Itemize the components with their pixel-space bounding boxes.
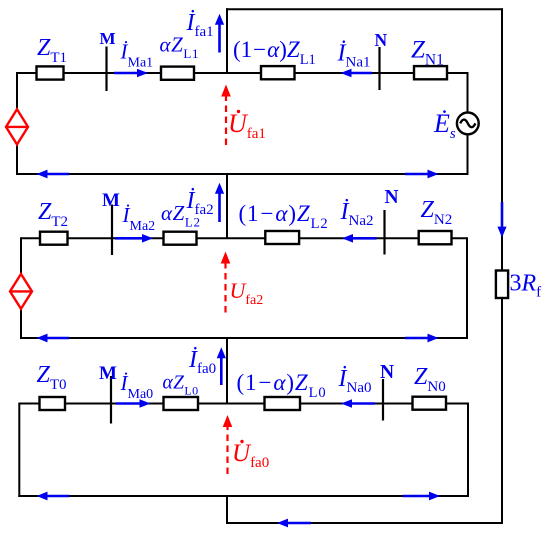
wire loop1 left lower <box>16 144 18 175</box>
wire loop1 top segment b <box>63 72 162 74</box>
current arrow right rail (down) <box>497 202 506 238</box>
wire loop2 left lower <box>20 309 22 340</box>
resistor ZN0 box <box>413 397 447 410</box>
wire loop2 top segment d <box>298 237 420 239</box>
node M bus tick (loop3) <box>110 376 112 424</box>
node N bus tick (loop3) <box>382 379 384 421</box>
svg-text:M: M <box>100 29 116 48</box>
wire top rail <box>226 8 503 10</box>
svg-text:N: N <box>380 362 394 383</box>
resistor alphaZL1 box <box>161 67 194 80</box>
resistor ZT0 box <box>40 397 66 410</box>
current arrow IMa0 <box>116 399 151 408</box>
wire loop2 right <box>466 237 468 339</box>
wire loop1 right upper <box>467 72 469 113</box>
wire loop2 top segment b <box>67 237 164 239</box>
resistor (1-alpha)ZL2 box <box>265 231 299 244</box>
wire loop1 top segment d <box>293 72 415 74</box>
wire loop2 top segment c <box>196 237 266 239</box>
node M bus tick (loop1) <box>105 47 107 92</box>
node N bus tick (loop1) <box>378 47 380 90</box>
resistor (1-alpha)ZL0 box <box>265 397 301 410</box>
wire right rail upper <box>501 8 503 271</box>
current arrow loop1 bottom-right <box>405 170 439 179</box>
wire loop1 top segment a <box>17 72 37 74</box>
wire loop1 right lower <box>467 134 469 175</box>
current arrow loop1 bottom-left <box>37 170 70 179</box>
resistor alphaZL2 box <box>164 232 197 245</box>
node N bus tick (loop2) <box>383 210 385 255</box>
source J2 diamond (negative-sequence) <box>10 274 32 309</box>
wire loop3 bottom <box>18 495 469 497</box>
resistor ZN1 box <box>414 66 447 79</box>
wire loop3 top segment b <box>64 403 164 405</box>
source Es circle <box>457 113 479 135</box>
resistor ZT2 box <box>40 232 68 245</box>
wire bottom rail <box>226 522 503 524</box>
current arrow INa1 <box>341 69 373 78</box>
resistor ZT1 box <box>37 66 64 79</box>
wire loop3 top segment a <box>19 403 40 405</box>
current arrow loop2 bottom-left <box>37 334 70 343</box>
voltage arrow Ufa0 (red dashed, up) <box>223 415 233 474</box>
current arrow loop3 bottom-right <box>403 492 440 501</box>
wire loop3 top segment c <box>198 403 266 405</box>
wire loop2-loop3 connector <box>226 338 228 405</box>
resistor 3Rf box <box>496 271 508 299</box>
svg-text:N: N <box>375 30 388 50</box>
resistor (1-alpha)ZL1 box <box>261 66 295 79</box>
resistor alphaZL0 box <box>164 397 199 410</box>
wire loop1 top segment c <box>193 72 262 74</box>
current arrow Ifa0 (up) <box>217 347 226 385</box>
current arrow Ifa1 (up) <box>215 14 224 53</box>
dot of Ufa0 <box>240 440 243 443</box>
wire loop1 bottom <box>16 173 469 175</box>
wire loop1-loop2 connector <box>226 174 228 239</box>
wire loop3 top segment d <box>300 403 414 405</box>
wire loop2 top segment a <box>21 237 41 239</box>
svg-text:M: M <box>99 363 117 384</box>
svg-text:N: N <box>385 187 399 208</box>
current arrow IMa2 <box>115 234 153 243</box>
svg-text:M: M <box>102 190 120 211</box>
wire right rail lower <box>501 297 503 524</box>
wire fault stub below loop3 <box>226 496 228 524</box>
node M bus tick (loop2) <box>111 205 113 256</box>
wire loop2 bottom <box>20 337 468 339</box>
current arrow Ifa2 (up) <box>215 183 224 222</box>
resistor ZN2 box <box>419 231 452 244</box>
wire loop2 left upper <box>20 237 22 274</box>
wire loop3 top segment e <box>445 403 468 405</box>
wire loop2 top segment e <box>451 237 468 239</box>
source J1 diamond (positive-sequence equivalent source) <box>6 109 28 144</box>
current arrow loop3 bottom-left <box>37 492 70 501</box>
current arrow IMa1 <box>114 69 148 78</box>
wire loop1 left upper <box>16 72 18 110</box>
current arrow bottom rail (left) <box>277 519 311 528</box>
wire loop3 left <box>18 403 20 498</box>
source Es sine wave <box>460 120 475 128</box>
wire loop1 top segment e <box>446 72 468 74</box>
wire loop3 right <box>467 403 469 498</box>
dot of Ufa1 <box>237 110 240 113</box>
voltage arrow Ufa1 (red dashed, up) <box>221 85 231 146</box>
current arrow INa2 <box>342 234 377 243</box>
wire fault stub above loop1 <box>226 8 228 73</box>
current arrow INa0 <box>341 399 375 408</box>
current arrow loop2 bottom-right <box>405 334 439 343</box>
voltage arrow Ufa2 (red dashed, up) <box>221 252 231 313</box>
